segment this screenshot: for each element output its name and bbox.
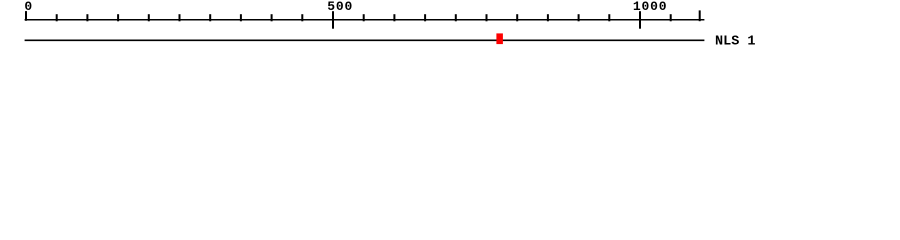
tick 350 [240, 14, 242, 21]
tick 300 [209, 14, 211, 21]
tick 500 (major) [332, 11, 334, 29]
tick 1100 (axis end, tall) [699, 10, 701, 21]
tick 900 [578, 14, 580, 21]
tick 150 [117, 14, 119, 21]
tick 550 [363, 14, 365, 21]
motif marker NLS 1 (red square) [496, 33, 503, 44]
tick 800 [516, 14, 518, 21]
svg-text:0: 0 [24, 0, 32, 14]
protein backbone line [25, 39, 705, 41]
tick 200 [148, 14, 150, 21]
tick 600 [393, 14, 395, 21]
tick 950 [608, 14, 610, 21]
ruler axis line [25, 19, 705, 21]
tick 450 [301, 14, 303, 21]
tick 1000 (major) [639, 11, 641, 29]
tick 400 [271, 14, 273, 21]
tick 0 (major) [25, 11, 27, 21]
svg-text:NLS 1: NLS 1 [715, 35, 756, 50]
tick 750 [486, 14, 488, 21]
tick 1050 [670, 14, 672, 21]
tick 850 [547, 14, 549, 21]
tick 650 [424, 14, 426, 21]
svg-text:500: 500 [327, 0, 353, 14]
tick 700 [455, 14, 457, 21]
svg-text:1000: 1000 [633, 0, 667, 14]
tick 250 [179, 14, 181, 21]
tick 50 [56, 14, 58, 21]
tick 100 [86, 14, 88, 21]
